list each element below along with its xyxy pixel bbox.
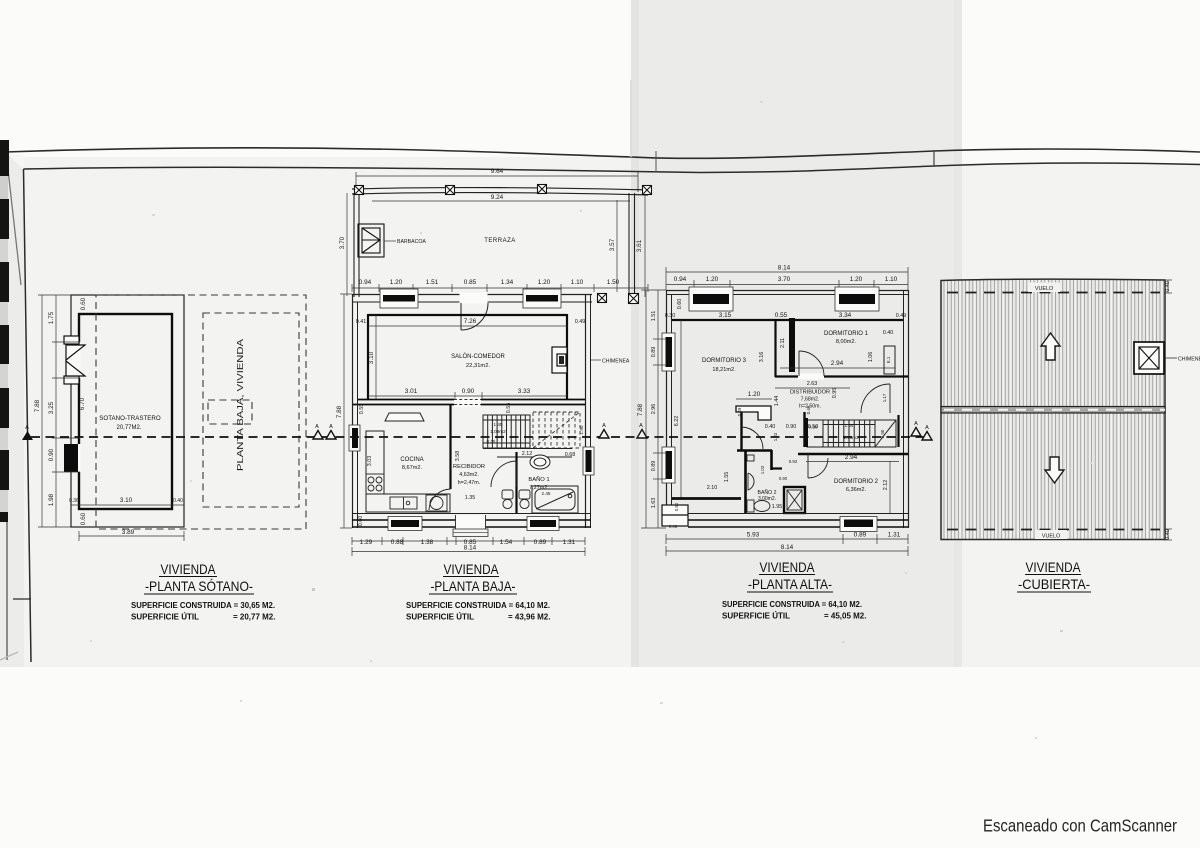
kitchen bottom counter bbox=[366, 494, 450, 512]
section markers plan2 left bbox=[313, 424, 336, 439]
svg-text:1.35: 1.35 bbox=[465, 495, 476, 501]
svg-text:1.34: 1.34 bbox=[501, 279, 514, 286]
svg-text:SUPERFICIE CONSTRUIDA = 64,10: SUPERFICIE CONSTRUIDA = 64,10 M2. bbox=[722, 600, 862, 609]
svg-text:20,77M2.: 20,77M2. bbox=[116, 425, 141, 431]
svg-text:0.36: 0.36 bbox=[69, 498, 79, 504]
fold seam tick at x934 bbox=[933, 150, 935, 167]
dim 0.40 top right bbox=[1164, 280, 1172, 293]
svg-text:SUPERFICIE CONSTRUIDA = 30,65: SUPERFICIE CONSTRUIDA = 30,65 M2. bbox=[131, 601, 275, 610]
bottom window 2 sill bbox=[527, 517, 559, 531]
svg-text:0.55: 0.55 bbox=[775, 312, 788, 319]
left wall window upper sill bbox=[662, 333, 675, 371]
svg-text:5.93: 5.93 bbox=[747, 532, 760, 539]
bottom door opening bbox=[455, 516, 486, 530]
porch stoop bbox=[453, 529, 488, 537]
svg-text:9.24: 9.24 bbox=[491, 194, 504, 201]
left margin shading outside frame bbox=[0, 152, 24, 667]
svg-text:0.60: 0.60 bbox=[80, 512, 87, 525]
svg-text:8,67m2.: 8,67m2. bbox=[402, 465, 423, 471]
svg-text:1.20: 1.20 bbox=[706, 276, 719, 283]
svg-text:E.1: E.1 bbox=[886, 356, 891, 363]
dim 7.88 left bbox=[340, 294, 352, 528]
svg-text:0.50: 0.50 bbox=[809, 425, 818, 430]
svg-text:1.51: 1.51 bbox=[651, 311, 657, 322]
dim 9.24 terraza bbox=[372, 200, 630, 202]
outer walls bbox=[666, 290, 909, 528]
svg-text:A: A bbox=[25, 425, 29, 431]
svg-text:0.49: 0.49 bbox=[575, 319, 586, 325]
toilet bbox=[502, 490, 513, 509]
dim 7.88 left outer bbox=[38, 295, 71, 527]
dim 3.89 bottom bbox=[79, 531, 184, 541]
section line A-A bbox=[31, 436, 926, 438]
sotano door symbol bbox=[64, 336, 85, 384]
house left wall bbox=[352, 294, 354, 528]
bottom window bbox=[844, 520, 873, 528]
svg-text:1.31: 1.31 bbox=[563, 539, 576, 546]
svg-text:1.95: 1.95 bbox=[772, 504, 783, 510]
svg-text:DORMITORIO 1: DORMITORIO 1 bbox=[824, 331, 869, 337]
nook wall bbox=[736, 406, 771, 420]
title planta sotano bbox=[131, 561, 275, 622]
salon walls bbox=[368, 314, 567, 400]
svg-text:1.06: 1.06 bbox=[868, 352, 874, 363]
bano2 basin bbox=[747, 455, 754, 490]
svg-text:1.20: 1.20 bbox=[390, 279, 403, 286]
dim row bottom inner bbox=[71, 504, 184, 506]
dim 2.12 dorm2 bbox=[889, 461, 891, 513]
bano1 door leaf bbox=[491, 461, 517, 487]
svg-text:DORMITORIO 2: DORMITORIO 2 bbox=[834, 479, 879, 485]
svg-text:3.33: 3.33 bbox=[518, 388, 531, 395]
svg-text:8.14: 8.14 bbox=[778, 265, 791, 272]
top window 2 sill bbox=[835, 287, 879, 311]
svg-text:DORMITORIO 3: DORMITORIO 3 bbox=[702, 358, 747, 364]
svg-text:3.15: 3.15 bbox=[719, 312, 732, 319]
svg-text:8.14: 8.14 bbox=[464, 545, 477, 552]
svg-text:1.51: 1.51 bbox=[426, 279, 439, 286]
house bottom wall bbox=[352, 513, 591, 515]
dim row windows front bbox=[352, 284, 648, 292]
svg-text:0.55: 0.55 bbox=[506, 403, 512, 414]
svg-text:-PLANTA BAJA-: -PLANTA BAJA- bbox=[431, 578, 516, 594]
svg-text:A: A bbox=[914, 421, 918, 427]
dorm1 door opening bbox=[798, 374, 824, 380]
svg-text:0.92: 0.92 bbox=[789, 459, 798, 464]
title planta baja bbox=[406, 561, 550, 622]
plan 4: cubierta roof bbox=[941, 279, 1200, 540]
sotano outer wall face bbox=[71, 295, 184, 527]
bidet bbox=[519, 490, 530, 509]
svg-text:PLANTA BAJA, VIVIENDA: PLANTA BAJA, VIVIENDA bbox=[236, 338, 245, 471]
scan speckles bbox=[90, 101, 1092, 739]
top window 1 bbox=[693, 294, 729, 304]
drawing zone paper tone bbox=[22, 157, 1200, 667]
dorm2 top wall bbox=[798, 453, 908, 455]
fold seam tick at x656 bbox=[655, 151, 657, 172]
svg-text:0.40: 0.40 bbox=[173, 498, 183, 504]
svg-text:0.90: 0.90 bbox=[48, 448, 55, 461]
vuelo dashed bottom bbox=[947, 529, 1160, 531]
svg-text:A: A bbox=[639, 423, 643, 429]
sink bbox=[390, 497, 417, 509]
svg-text:A: A bbox=[925, 425, 929, 431]
binding strip black blocks bbox=[0, 140, 9, 522]
svg-text:1.10: 1.10 bbox=[885, 276, 898, 283]
svg-text:VIVIENDA: VIVIENDA bbox=[1026, 559, 1082, 575]
frame left border bbox=[24, 169, 32, 662]
dim 8.14 bottom bbox=[666, 546, 908, 556]
bottom window 1 bbox=[391, 520, 419, 527]
svg-text:3.03: 3.03 bbox=[367, 456, 373, 467]
svg-text:1.03: 1.03 bbox=[760, 465, 765, 474]
svg-text:0.55: 0.55 bbox=[359, 404, 365, 415]
fold seam faint line above frame bbox=[630, 80, 632, 157]
svg-text:0.60: 0.60 bbox=[358, 516, 364, 527]
roof hatch bbox=[944, 280, 1164, 539]
svg-text:0.94: 0.94 bbox=[359, 279, 372, 286]
dim 3.70 terraza left bbox=[346, 193, 348, 296]
svg-text:RECIBIDOR: RECIBIDOR bbox=[453, 464, 485, 470]
left wall window upper bbox=[666, 337, 673, 367]
svg-text:1.55: 1.55 bbox=[724, 472, 730, 483]
svg-text:0.49: 0.49 bbox=[806, 405, 811, 414]
pergola posts top bbox=[355, 185, 652, 195]
svg-text:A: A bbox=[315, 424, 319, 430]
bottom window 2 bbox=[530, 520, 556, 527]
svg-text:2.94: 2.94 bbox=[831, 360, 844, 367]
dim 1.20 nook bbox=[736, 398, 772, 400]
svg-text:0.95: 0.95 bbox=[832, 388, 838, 399]
left wall window bbox=[349, 425, 360, 451]
svg-text:8.14: 8.14 bbox=[781, 544, 794, 551]
inner top wall face bbox=[672, 319, 903, 321]
bano2 walls bbox=[746, 450, 783, 513]
svg-text:0.88: 0.88 bbox=[391, 539, 404, 546]
house right wall bbox=[585, 294, 587, 528]
barbacoa bbox=[358, 224, 384, 257]
dorm3 door leaf bbox=[742, 427, 764, 449]
left wall window lower sill bbox=[662, 447, 675, 483]
svg-text:1.20: 1.20 bbox=[850, 276, 863, 283]
svg-text:0.89: 0.89 bbox=[651, 347, 657, 358]
svg-text:0.40: 0.40 bbox=[883, 330, 894, 336]
svg-text:0.85: 0.85 bbox=[464, 279, 477, 286]
svg-text:3.58: 3.58 bbox=[455, 451, 461, 462]
bathtub bbox=[532, 486, 578, 513]
svg-text:2.10: 2.10 bbox=[707, 485, 718, 491]
bottom window sill bbox=[840, 517, 877, 532]
svg-text:CHIMENEA: CHIMENEA bbox=[1178, 357, 1200, 363]
stairs upper floor bbox=[807, 420, 875, 447]
vuelo label top bbox=[1028, 283, 1060, 293]
svg-text:0.68: 0.68 bbox=[565, 452, 576, 458]
kitchen divider wall bbox=[449, 404, 451, 489]
svg-text:= 20,77 M2.: = 20,77 M2. bbox=[233, 613, 275, 622]
fridge bbox=[385, 413, 424, 421]
svg-text:22,31m2.: 22,31m2. bbox=[466, 363, 491, 369]
landing below stairs bbox=[483, 449, 572, 458]
svg-text:0.40: 0.40 bbox=[1165, 281, 1171, 292]
svg-text:0.90: 0.90 bbox=[779, 476, 788, 481]
stairs right wall bbox=[897, 415, 899, 447]
stairs solid flight bbox=[483, 415, 530, 448]
svg-text:0.89: 0.89 bbox=[534, 539, 547, 546]
svg-text:2.11: 2.11 bbox=[780, 338, 786, 348]
svg-text:1.17: 1.17 bbox=[882, 393, 887, 402]
dim 7.26 salon bbox=[368, 325, 567, 327]
ghost outline planta baja (dashed) bbox=[96, 295, 306, 529]
svg-text:BARBACOA: BARBACOA bbox=[397, 239, 426, 245]
dim 2.94 dorm1 bbox=[780, 367, 895, 369]
dim row bottom bbox=[352, 537, 585, 545]
section markers plan2 right / plan3 left bbox=[599, 423, 647, 438]
bano2 toilet bbox=[747, 500, 770, 512]
svg-text:SUPERFICIE ÚTIL: SUPERFICIE ÚTIL bbox=[722, 612, 790, 621]
svg-text:BAÑO 2: BAÑO 2 bbox=[757, 489, 776, 496]
chimney bbox=[1134, 342, 1164, 374]
svg-text:1.45: 1.45 bbox=[494, 422, 503, 427]
dim 6.22 dorm3 bbox=[680, 320, 682, 498]
dim 9.64 terraza bbox=[356, 172, 638, 192]
svg-text:0.90: 0.90 bbox=[462, 388, 475, 395]
svg-text:1.38: 1.38 bbox=[421, 539, 434, 546]
svg-text:0.50: 0.50 bbox=[674, 502, 679, 511]
svg-text:2.45: 2.45 bbox=[542, 491, 551, 496]
closet E1 bbox=[884, 346, 895, 374]
dorm3 south wall bbox=[672, 497, 741, 500]
svg-text:DISTRIBUIDOR: DISTRIBUIDOR bbox=[790, 390, 830, 396]
svg-text:SUPERFICIE ÚTIL: SUPERFICIE ÚTIL bbox=[406, 613, 474, 622]
pergola posts bottom right bbox=[598, 294, 639, 304]
dorm2 door leaf bbox=[808, 454, 828, 478]
svg-text:1.20: 1.20 bbox=[538, 279, 551, 286]
front window 2 bbox=[526, 295, 558, 302]
sotano door opening upper left bbox=[70, 342, 81, 378]
svg-text:3.70: 3.70 bbox=[778, 276, 791, 283]
sotano lightwell opening lower left bbox=[70, 444, 81, 472]
vuelo dashed top bbox=[947, 292, 1160, 294]
svg-text:TERRAZA: TERRAZA bbox=[484, 238, 516, 244]
roof outline bbox=[941, 279, 1165, 539]
svg-text:SUPERFICIE ÚTIL: SUPERFICIE ÚTIL bbox=[131, 613, 199, 622]
svg-text:6.70: 6.70 bbox=[79, 397, 86, 410]
svg-text:Escaneado con CamScanner: Escaneado con CamScanner bbox=[983, 816, 1177, 836]
sotano lightwell black block bbox=[64, 444, 78, 472]
salon bottom wall bbox=[358, 399, 585, 401]
svg-text:18,21m2.: 18,21m2. bbox=[712, 367, 736, 373]
svg-text:VUELO: VUELO bbox=[1035, 286, 1053, 292]
front window 1 bbox=[383, 295, 415, 302]
svg-text:CHIMENEA: CHIMENEA bbox=[602, 359, 630, 365]
dim 2.94 dorm2 bbox=[806, 461, 899, 463]
svg-text:6,36m2.: 6,36m2. bbox=[846, 487, 867, 493]
top window 2 bbox=[839, 294, 875, 304]
svg-text:2.63: 2.63 bbox=[807, 381, 818, 387]
svg-text:3.10: 3.10 bbox=[120, 497, 133, 504]
svg-text:3.16: 3.16 bbox=[759, 352, 765, 363]
svg-text:SUPERFICIE CONSTRUIDA = 64,10: SUPERFICIE CONSTRUIDA = 64,10 M2. bbox=[406, 601, 550, 610]
stair door arc bbox=[861, 384, 890, 413]
svg-text:0.94: 0.94 bbox=[674, 276, 687, 283]
vuelo label bottom bbox=[1035, 530, 1067, 539]
svg-text:1.29: 1.29 bbox=[360, 539, 373, 546]
kitchen counter left bbox=[366, 431, 384, 494]
up arrow bbox=[1041, 333, 1060, 360]
front window 2 sill bbox=[523, 289, 561, 308]
front window 1 sill bbox=[380, 289, 418, 308]
svg-text:SOTANO-TRASTERO: SOTANO-TRASTERO bbox=[99, 415, 161, 422]
binding strip lower line bbox=[6, 522, 8, 660]
distribuidor-stairs wall bbox=[803, 412, 805, 447]
plan 3: planta alta bbox=[637, 265, 909, 557]
shaded fold panel bbox=[631, 0, 962, 667]
dim row salon bottom bbox=[368, 392, 567, 400]
svg-text:0.46: 0.46 bbox=[669, 524, 678, 529]
svg-text:1.44: 1.44 bbox=[774, 396, 780, 407]
svg-text:3.25: 3.25 bbox=[48, 401, 55, 414]
bano1 left wall bbox=[515, 452, 517, 513]
svg-text:7.88: 7.88 bbox=[637, 403, 644, 416]
dim 3.57 terraza right bbox=[616, 200, 618, 292]
svg-text:3.01: 3.01 bbox=[405, 388, 418, 395]
svg-text:A: A bbox=[329, 424, 333, 430]
svg-text:1.54: 1.54 bbox=[500, 539, 513, 546]
top window 1 sill bbox=[689, 287, 733, 311]
title cubierta bbox=[1017, 559, 1091, 592]
section marker left bbox=[22, 425, 33, 440]
svg-text:1.90: 1.90 bbox=[579, 425, 584, 434]
house bottom wall bbox=[688, 513, 908, 515]
svg-text:0.25: 0.25 bbox=[487, 439, 496, 444]
svg-text:3.89: 3.89 bbox=[122, 529, 135, 536]
svg-text:3.34: 3.34 bbox=[839, 312, 852, 319]
svg-text:7.88: 7.88 bbox=[34, 399, 41, 412]
stairs black edge bbox=[804, 418, 808, 447]
svg-text:3.61: 3.61 bbox=[636, 239, 643, 252]
svg-text:0.60: 0.60 bbox=[677, 299, 683, 310]
plan 1: planta sotano bbox=[34, 295, 306, 541]
chimney flue mark bbox=[559, 356, 564, 364]
svg-text:0.40: 0.40 bbox=[1165, 529, 1171, 540]
left stub block bbox=[662, 505, 688, 526]
svg-text:VIVIENDA: VIVIENDA bbox=[760, 559, 816, 575]
dim 3.61 terraza right outer bbox=[644, 195, 646, 297]
salon bottom opening dashed bbox=[454, 397, 481, 407]
svg-text:-PLANTA ALTA-: -PLANTA ALTA- bbox=[748, 576, 832, 592]
svg-text:3,00m2.: 3,00m2. bbox=[758, 496, 776, 502]
pergola right beam bbox=[628, 193, 630, 299]
bottom window 1 sill bbox=[388, 517, 422, 531]
svg-text:2.12: 2.12 bbox=[883, 480, 889, 491]
svg-text:2.12: 2.12 bbox=[522, 451, 533, 457]
house front wall bbox=[352, 294, 592, 296]
dim segments left inner bbox=[653, 290, 666, 528]
svg-text:1.10: 1.10 bbox=[571, 279, 584, 286]
closet wall dorm1 bbox=[774, 320, 776, 377]
svg-text:3.10: 3.10 bbox=[368, 351, 375, 364]
stairs diagonal box bbox=[875, 420, 896, 447]
washer bbox=[426, 495, 447, 511]
svg-text:0.89: 0.89 bbox=[854, 532, 867, 539]
chimenea label bbox=[590, 359, 601, 361]
section markers plan3 right / plan4 left bbox=[911, 421, 932, 440]
svg-text:0.60: 0.60 bbox=[80, 297, 87, 310]
ridge band bbox=[941, 407, 1165, 414]
svg-text:3.70: 3.70 bbox=[339, 236, 346, 249]
center wall vertical bbox=[740, 412, 742, 450]
svg-text:7.26: 7.26 bbox=[464, 318, 477, 325]
dim row bottom bbox=[666, 534, 908, 544]
svg-text:2.94: 2.94 bbox=[845, 454, 858, 461]
dim column left segments bbox=[52, 295, 80, 527]
svg-text:0.40: 0.40 bbox=[765, 424, 776, 430]
dim 3.10 salon left bbox=[375, 315, 377, 399]
plan 2: planta baja bbox=[336, 168, 652, 556]
paper left edge bbox=[6, 152, 21, 285]
svg-text:1.63: 1.63 bbox=[651, 498, 657, 509]
stray mark bottom left bbox=[0, 652, 18, 660]
sotano inner wall face (trastero room) bbox=[79, 314, 172, 509]
svg-text:7.88: 7.88 bbox=[336, 405, 343, 418]
svg-text:-PLANTA SÓTANO-: -PLANTA SÓTANO- bbox=[145, 578, 253, 594]
svg-text:VIVIENDA: VIVIENDA bbox=[444, 561, 500, 577]
dim 8.14 top bbox=[666, 267, 908, 290]
svg-text:VUELO: VUELO bbox=[1042, 534, 1060, 540]
svg-text:1.20: 1.20 bbox=[748, 391, 761, 398]
svg-text:1.09m2: 1.09m2 bbox=[490, 429, 506, 434]
svg-text:1.31: 1.31 bbox=[888, 532, 901, 539]
stove bbox=[366, 474, 384, 494]
stairs dashed flight bbox=[533, 412, 580, 448]
svg-text:0.30: 0.30 bbox=[665, 313, 676, 319]
svg-text:= 45,05 M2.: = 45,05 M2. bbox=[824, 612, 866, 621]
svg-text:= 43,96 M2.: = 43,96 M2. bbox=[508, 613, 550, 622]
front door opening bbox=[460, 293, 488, 304]
washbasin oval bbox=[530, 455, 550, 469]
dorm1 door leaf bbox=[799, 351, 824, 376]
dim 0.40 bottom right bbox=[1164, 529, 1172, 540]
dim 7.88 left bbox=[641, 290, 666, 528]
svg-text:7,68m2.: 7,68m2. bbox=[801, 397, 820, 403]
dim 8.14 bottom bbox=[352, 547, 585, 556]
dorm1 bottom wall bbox=[775, 375, 908, 377]
svg-text:COCINA: COCINA bbox=[400, 457, 423, 463]
right wall window bbox=[583, 447, 594, 475]
shower bbox=[784, 487, 805, 513]
svg-text:1.64: 1.64 bbox=[845, 423, 854, 428]
svg-text:2.96: 2.96 bbox=[651, 404, 657, 415]
svg-text:A: A bbox=[602, 423, 606, 429]
kitchen door leaf bbox=[429, 489, 451, 510]
svg-text:4,63m2.: 4,63m2. bbox=[459, 472, 478, 478]
pergola left beam bbox=[353, 193, 355, 297]
svg-text:1.98: 1.98 bbox=[48, 493, 55, 506]
svg-text:-CUBIERTA-: -CUBIERTA- bbox=[1018, 576, 1090, 592]
svg-text:BAÑO 1: BAÑO 1 bbox=[528, 476, 549, 483]
svg-text:8,00m2.: 8,00m2. bbox=[836, 339, 857, 345]
sotano room label bbox=[99, 415, 161, 431]
svg-text:0.89: 0.89 bbox=[651, 461, 657, 472]
pergola top beam bbox=[352, 188, 648, 190]
svg-text:VIVIENDA: VIVIENDA bbox=[161, 561, 217, 577]
chimenea label bbox=[1164, 357, 1177, 359]
bano2 top wall bbox=[737, 449, 772, 451]
roof base tone bbox=[941, 279, 1165, 539]
svg-text:6.22: 6.22 bbox=[674, 416, 680, 427]
svg-text:h=2,47m.: h=2,47m. bbox=[458, 480, 481, 486]
svg-text:9.64: 9.64 bbox=[491, 168, 504, 175]
